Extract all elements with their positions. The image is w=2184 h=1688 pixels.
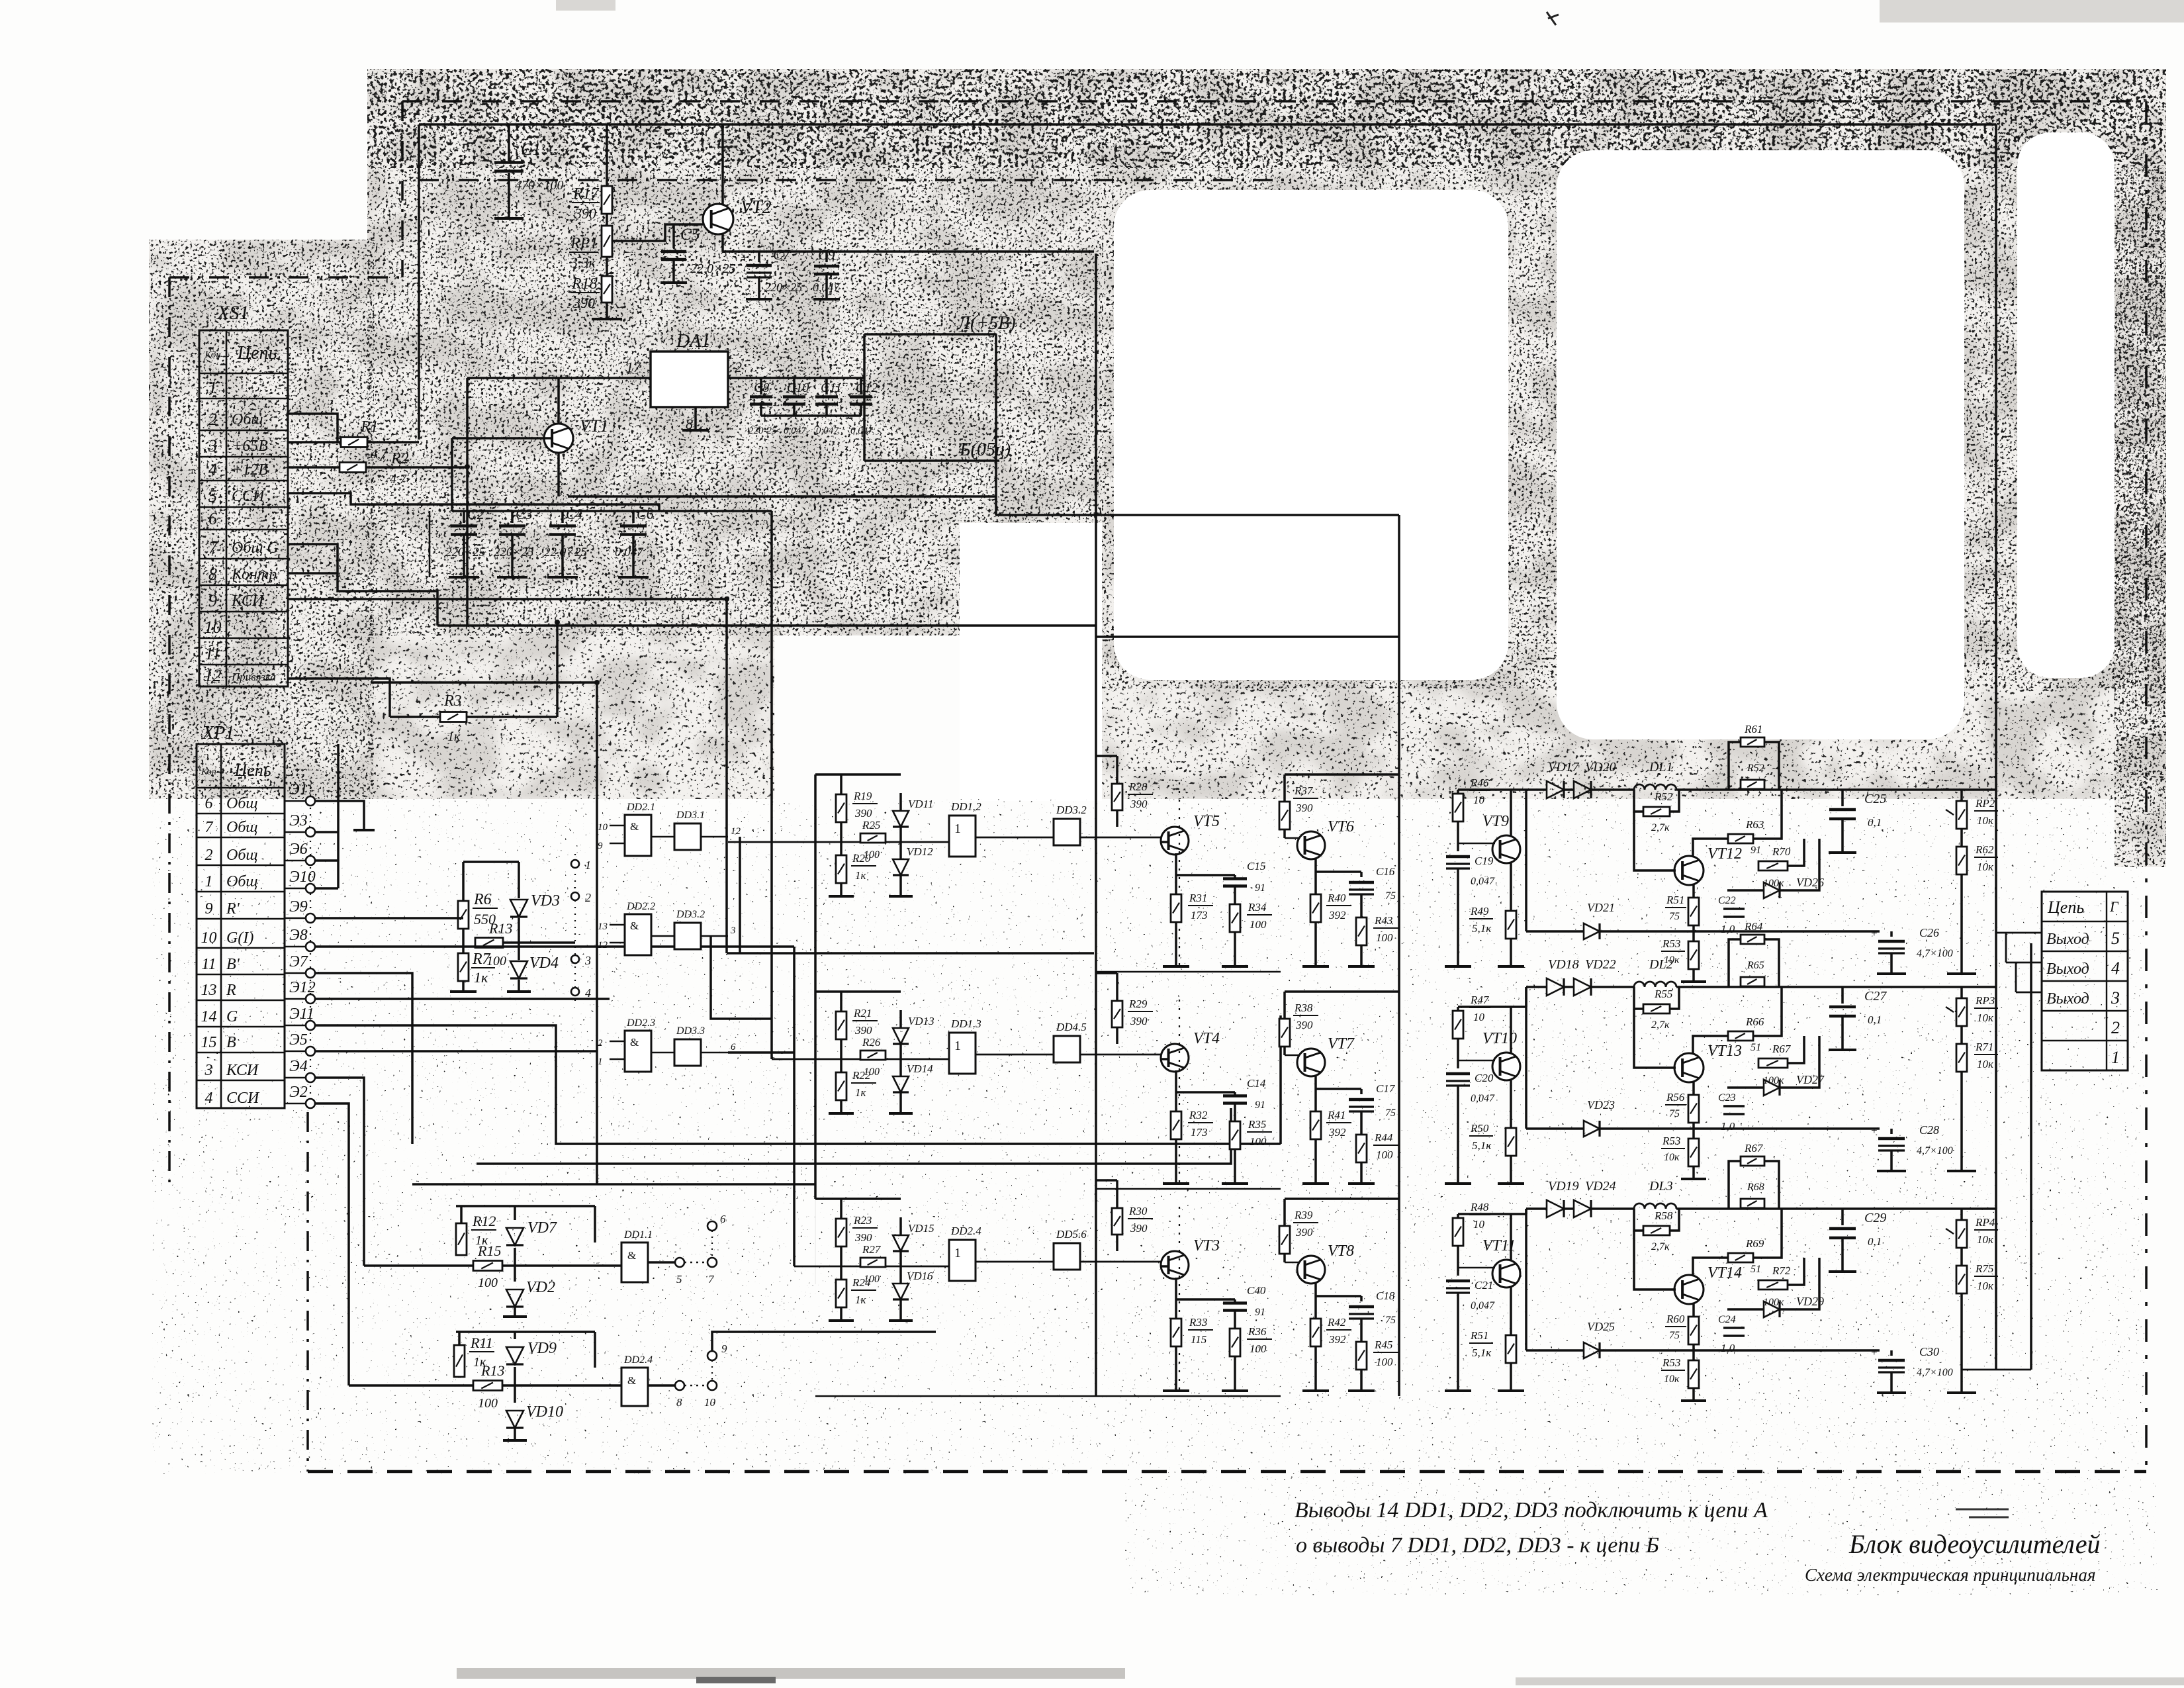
link stage B jog [1525,1209,1527,1214]
svg-text:2: 2 [205,847,213,864]
svg-text:10к: 10к [1977,1058,1994,1070]
stage R top rail [1096,635,1399,638]
svg-text:VD25: VD25 [1587,1320,1615,1333]
svg-text:R52: R52 [1747,763,1764,774]
svg-text:&: & [627,1249,636,1262]
svg-text:VT5: VT5 [1193,813,1220,830]
svg-text:R71: R71 [1975,1041,1993,1053]
svg-text:R52: R52 [1654,790,1673,803]
svg-text:390: 390 [1295,1226,1313,1239]
svg-text:R47: R47 [1470,994,1490,1006]
svg-text:2: 2 [585,891,591,904]
svg-text:1,0: 1,0 [1721,923,1735,935]
cluster loop top 2 [456,1331,595,1333]
svg-text:3: 3 [584,954,591,967]
svg-text:0,047: 0,047 [816,426,839,436]
svg-text:75: 75 [1385,1315,1396,1326]
svg-text:&: & [630,820,639,833]
svg-text:3: 3 [730,925,736,936]
frame inner top dashed [419,179,1291,181]
diode VD9 [514,1332,516,1339]
svg-text:13: 13 [201,982,217,999]
svg-text:R1: R1 [360,418,379,436]
svg-text:14: 14 [201,1008,217,1025]
svg-text:C30: C30 [1919,1345,1939,1358]
svg-text:15: 15 [201,1034,217,1051]
svg-text:Э5: Э5 [289,1031,308,1049]
svg-text:91: 91 [1255,1100,1265,1111]
svg-text:12: 12 [205,666,222,685]
svg-text:R13: R13 [488,920,512,937]
svg-text:2,7к: 2,7к [1651,1019,1670,1031]
svg-text:Э6: Э6 [289,841,308,858]
diode VD4 [518,918,520,960]
svg-text:5: 5 [676,1273,682,1286]
wire R15b row [349,1384,473,1387]
svg-text:VT12: VT12 [1707,845,1742,863]
svg-text:C25: C25 [1864,792,1886,806]
svg-text:R13: R13 [480,1362,504,1379]
svg-text:4,7: 4,7 [371,447,388,461]
svg-text:C19: C19 [1475,855,1494,867]
cluster top wire [463,861,519,863]
stub terminals 1-4 [574,854,576,1003]
svg-text:R23: R23 [853,1214,872,1227]
svg-text:Контр: Контр [231,566,277,583]
svg-text:2: 2 [208,410,217,429]
svg-text:VT7: VT7 [1328,1035,1355,1053]
diode VD7 [514,1206,516,1220]
wire to table row5 [1996,932,2042,934]
svg-text:R31: R31 [1189,892,1207,904]
cluster R6 resistor [462,862,465,901]
svg-text:C29: C29 [1864,1211,1886,1225]
wire XS1 row2 [288,414,338,442]
svg-text:VD20: VD20 [1585,760,1616,774]
svg-text:220×25: 220×25 [494,545,533,559]
svg-text:390: 390 [1130,798,1148,810]
wire RP1 wiper to C5/VT2 base [612,224,703,241]
svg-text:R27: R27 [862,1243,882,1256]
svg-text:R55: R55 [1654,988,1672,1000]
svg-text:C24: C24 [1718,1314,1736,1325]
svg-text:9: 9 [208,591,217,610]
svg-text:DD2.4: DD2.4 [623,1354,653,1366]
resistor R15 [473,1261,502,1271]
svg-text:VD18: VD18 [1548,957,1579,972]
svg-text:R3: R3 [443,692,462,710]
capacitor C12 [860,378,862,395]
svg-text:С4: С4 [566,506,583,522]
svg-text:392: 392 [1328,1126,1346,1139]
capacitor C10 [793,378,796,395]
connector XP1 table [197,723,285,1108]
svg-text:Выход: Выход [2046,931,2089,948]
svg-text:75: 75 [1669,911,1680,922]
wire bus y1789 [412,1183,815,1186]
svg-text:VD24: VD24 [1585,1179,1616,1194]
stage bus vertical x1935 [1279,1015,1282,1144]
svg-text:C14: C14 [1247,1077,1266,1090]
svg-text:0,047: 0,047 [1471,1300,1495,1311]
wire vert 2114 [1398,515,1400,1396]
svg-text:5,1к: 5,1к [1472,1346,1492,1359]
svg-text:4: 4 [585,986,591,1000]
svg-text:4,7×100: 4,7×100 [1917,1145,1953,1156]
svg-text:10к: 10к [1977,1011,1994,1024]
svg-text:Э7: Э7 [289,953,308,970]
svg-text:VD10: VD10 [526,1403,563,1421]
svg-text:C5: C5 [680,226,700,244]
XP1 common bus [315,831,338,833]
svg-text:10: 10 [598,822,608,833]
svg-text:DD3.1: DD3.1 [676,810,705,821]
svg-text:115: 115 [1191,1333,1206,1346]
resistor R18 [606,257,608,276]
svg-text:RP2: RP2 [1975,797,1995,810]
wire L rail [863,334,866,416]
svg-text:Э11: Э11 [289,1006,314,1023]
svg-text:C26: C26 [1919,926,1939,939]
svg-text:VD17: VD17 [1548,760,1580,774]
svg-text:8: 8 [676,1396,682,1409]
wire E5 route [315,1050,597,1053]
svg-text:R48: R48 [1470,1201,1489,1213]
svg-text:10: 10 [1473,1218,1485,1231]
svg-text:Э12: Э12 [289,979,316,996]
resistor R2 [288,466,340,469]
svg-text:B': B' [226,956,240,973]
svg-text:R69: R69 [1745,1237,1764,1250]
wire XS1 row9 KSI [288,599,727,953]
svg-text:R53: R53 [1662,1135,1680,1147]
svg-text:R51: R51 [1666,894,1684,906]
svg-text:КСИ: КСИ [226,1062,259,1079]
svg-text:R26: R26 [862,1036,881,1049]
svg-text:R17: R17 [572,185,600,203]
svg-text:0,047: 0,047 [850,426,874,436]
svg-text:75: 75 [1669,1330,1680,1341]
wire R15 row [364,1264,473,1267]
svg-text:100: 100 [478,1396,498,1411]
wire E4 route [315,1078,364,1266]
svg-text:100: 100 [1250,918,1267,931]
svg-text:390: 390 [1130,1015,1148,1027]
svg-text:0,047: 0,047 [1471,876,1495,887]
svg-text:Блок видеоусилителей: Блок видеоусилителей [1848,1529,2101,1559]
resistor R1 [288,441,341,444]
svg-text:10к: 10к [1664,1152,1680,1163]
wire XS1 row7 [288,544,437,626]
output channel R [1526,788,1547,791]
svg-text:1: 1 [2111,1048,2120,1067]
svg-text:470×100: 470×100 [515,178,564,193]
capacitor С6 [632,511,635,523]
svg-text:R72: R72 [1772,1264,1791,1277]
svg-text:Кон: Кон [204,350,220,360]
svg-text:R2: R2 [390,450,409,467]
svg-text:390: 390 [574,205,596,222]
top supply rail [419,123,1996,126]
svg-text:+: + [740,251,749,265]
capacitor C7 [758,252,760,262]
wire XS1 row5 SSI [288,493,659,511]
svg-text:ХР1: ХР1 [202,723,234,743]
transistor VT2 [703,204,733,234]
svg-text:10к: 10к [1664,1374,1680,1385]
svg-text:VT2: VT2 [741,197,772,218]
wire VT1 base [452,437,552,440]
svg-text:DD5.6: DD5.6 [1056,1228,1087,1241]
svg-text:22,0×25: 22,0×25 [690,261,736,276]
svg-text:R70: R70 [1772,845,1791,858]
amplifier stage R (VT5,VT6,VT9) [949,816,976,857]
svg-text:C20: C20 [1475,1072,1494,1084]
wire XS1 row8 [288,572,338,575]
svg-text:9: 9 [721,1342,727,1355]
svg-text:91: 91 [1255,1307,1265,1318]
svg-text:22,0×25: 22,0×25 [544,545,587,559]
svg-text:2: 2 [735,359,742,375]
svg-text:С10: С10 [787,381,809,395]
capacitor C1 [508,124,510,161]
svg-text:DL2: DL2 [1649,957,1673,972]
svg-text:390: 390 [572,295,595,311]
frame lower-left vertical dashed [306,1112,309,1472]
svg-text:R53: R53 [1662,1356,1680,1369]
svg-text:R15: R15 [477,1243,501,1259]
svg-text:+65В: +65В [232,438,268,455]
wire B rail drop [863,416,866,461]
svg-text:R46: R46 [1470,776,1489,789]
svg-text:R37: R37 [1294,784,1314,797]
wire E12 route [315,998,610,1000]
svg-text:R67: R67 [1744,1142,1764,1154]
svg-text:VD11: VD11 [908,798,933,810]
svg-text:1к: 1к [474,969,488,986]
svg-text:R53: R53 [1662,937,1680,950]
wire VT2 emitter [721,233,724,252]
frame left vertical dashed [168,277,171,1186]
resistor R15b [473,1381,502,1391]
svg-text:220×25: 220×25 [445,545,485,559]
svg-text:11: 11 [201,956,216,973]
svg-text:С12: С12 [856,381,878,395]
svg-text:VT13: VT13 [1707,1043,1742,1060]
svg-text:51: 51 [1751,1264,1761,1275]
svg-text:R35: R35 [1248,1118,1266,1131]
svg-text:5: 5 [2111,929,2120,948]
svg-text:C40: C40 [1247,1284,1266,1297]
svg-text:C23: C23 [1718,1092,1736,1103]
svg-text:R63: R63 [1745,818,1764,831]
gates DD2.2 DD3.2 [625,914,651,955]
svg-text:R7: R7 [472,951,491,968]
wire pairA branch [739,837,741,953]
capacitor C9 [825,252,828,262]
svg-text:C27: C27 [1864,989,1887,1004]
svg-text:10: 10 [1473,1011,1485,1023]
svg-text:C9: C9 [818,246,835,263]
svg-text:Схема электрическая принципиал: Схема электрическая принципиальная [1805,1565,2095,1585]
svg-text:4: 4 [2111,959,2120,978]
svg-text:392: 392 [1328,909,1346,921]
output channel B [1526,1207,1547,1210]
svg-text:4,7×100: 4,7×100 [1917,948,1953,959]
svg-text:DL3: DL3 [1649,1179,1673,1194]
svg-text:&: & [630,919,639,932]
svg-text:С3: С3 [516,506,533,522]
svg-text:B: B [226,1034,236,1051]
stage feed bus [814,774,817,1199]
svg-text:Выход: Выход [2046,961,2089,978]
svg-text:6: 6 [208,509,217,528]
svg-text:10к: 10к [1977,814,1994,827]
svg-text:17: 17 [626,359,641,375]
svg-text:1,0: 1,0 [1721,1342,1735,1354]
svg-text:390: 390 [1295,1019,1313,1031]
capacitor C5 [672,224,675,248]
wire VT1 collector [557,378,560,424]
wire VT2 collector [721,124,724,205]
svg-text:10: 10 [201,929,217,947]
svg-text:C15: C15 [1247,860,1265,872]
svg-text:R12: R12 [472,1213,496,1229]
svg-text:1: 1 [954,1246,961,1260]
svg-text:Э9: Э9 [289,898,308,915]
svg-text:R': R' [226,900,240,917]
svg-text:DD1.3: DD1.3 [950,1017,981,1030]
svg-text:С2: С2 [467,506,484,522]
diode VD3 [518,862,520,898]
gate DD1.1 [621,1243,648,1282]
svg-text:VD22: VD22 [1585,957,1616,972]
svg-text:R45: R45 [1374,1338,1392,1351]
wire R13 to right [503,941,575,944]
wire DA1 pin8 [694,407,697,430]
svg-text:С6: С6 [637,506,654,522]
svg-text:3: 3 [208,436,217,455]
potentiometer RP1 [606,214,608,226]
svg-text:10: 10 [704,1396,716,1409]
capacitor С2 [463,511,465,523]
svg-text:6: 6 [205,795,213,812]
svg-text:C17: C17 [1376,1082,1396,1095]
svg-text:R11: R11 [470,1335,493,1351]
svg-text:2,7к: 2,7к [1651,1241,1670,1252]
wire vertical left [418,124,420,440]
svg-text:XS1: XS1 [216,302,249,324]
svg-text:С8: С8 [754,381,769,395]
svg-text:0,1: 0,1 [1868,1013,1882,1026]
wire vert x902 [596,682,598,1185]
output connector table [2042,892,2128,1070]
svg-text:VD19: VD19 [1548,1179,1579,1194]
svg-text:R66: R66 [1745,1015,1764,1028]
svg-text:2: 2 [598,1038,603,1049]
svg-text:R33: R33 [1189,1316,1207,1329]
wire from t9 up [712,1332,936,1351]
svg-text:3,3к: 3,3к [570,254,596,271]
svg-text:100: 100 [1250,1342,1267,1355]
svg-text:Э2: Э2 [289,1084,308,1101]
svg-text:91: 91 [1255,882,1265,894]
svg-text:1к: 1к [855,1293,867,1306]
svg-text:VT8: VT8 [1328,1243,1354,1260]
svg-text:R36: R36 [1248,1325,1267,1338]
svg-text:VT9: VT9 [1482,813,1509,830]
svg-text:R39: R39 [1294,1209,1313,1221]
svg-text:1к: 1к [855,1086,867,1099]
svg-text:Общ: Общ [226,819,258,836]
svg-text:R25: R25 [862,819,880,831]
svg-text:R21: R21 [853,1007,872,1019]
svg-text:VD2: VD2 [526,1279,555,1296]
svg-text:390: 390 [854,807,872,820]
svg-text:VD3: VD3 [531,892,560,910]
svg-text:VD16: VD16 [907,1270,933,1282]
svg-text:Выход: Выход [2046,990,2089,1008]
wire E11 route [315,1025,1281,1144]
svg-text:R24: R24 [852,1276,871,1289]
caps top bus [452,510,772,512]
svg-text:1: 1 [208,378,217,397]
rail y750 [568,495,996,498]
svg-text:о выводы 7 DD1, DD2, DD3 - к ц: о выводы 7 DD1, DD2, DD3 - к цепи Б [1296,1533,1659,1558]
svg-text:9: 9 [205,900,213,917]
svg-text:100: 100 [1250,1135,1267,1148]
svg-text:100: 100 [1376,1149,1393,1161]
amplifier stage G (VT4,VT7,VT10) [949,1033,976,1074]
svg-text:КСИ: КСИ [231,592,265,610]
svg-text:4: 4 [205,1090,213,1107]
svg-text:Л(+5В): Л(+5В) [957,313,1016,334]
wire +5 col right [995,334,997,515]
gates DD2.1 DD3.1 [625,815,651,856]
svg-text:R20: R20 [852,852,871,865]
svg-text:100: 100 [1376,931,1393,944]
wire XS1 row12 [288,679,390,717]
svg-text:Привязка: Привязка [231,671,276,683]
terminal 9 [707,1351,717,1360]
bus y1440 [727,952,1094,955]
svg-text:DD2.4: DD2.4 [950,1225,981,1237]
svg-text:7: 7 [208,538,218,557]
frame top dashed [402,100,2146,103]
svg-text:VT14: VT14 [1707,1264,1742,1282]
svg-text:10: 10 [1473,794,1485,806]
svg-text:6: 6 [720,1213,726,1225]
svg-text:VT1: VT1 [580,416,608,436]
svg-text:R56: R56 [1666,1091,1685,1103]
svg-text:4,7: 4,7 [390,472,407,487]
resistor R3 [390,716,440,718]
svg-text:0,047: 0,047 [813,281,841,294]
svg-text:Общ: Общ [226,873,258,890]
svg-text:10к: 10к [1977,861,1994,873]
svg-text:4,7×100: 4,7×100 [1917,1367,1953,1378]
svg-text:1к: 1к [447,729,461,744]
svg-text:0,047: 0,047 [1471,1093,1495,1104]
jog pairC to stage B [728,1051,794,1054]
svg-text:+12В: +12В [232,461,268,479]
frame left upper vertical dashed [401,101,404,277]
svg-text:3: 3 [2111,988,2120,1008]
svg-text:R64: R64 [1744,920,1763,933]
svg-text:R42: R42 [1327,1316,1346,1329]
svg-text:R: R [226,982,236,999]
svg-text:1: 1 [585,859,591,872]
